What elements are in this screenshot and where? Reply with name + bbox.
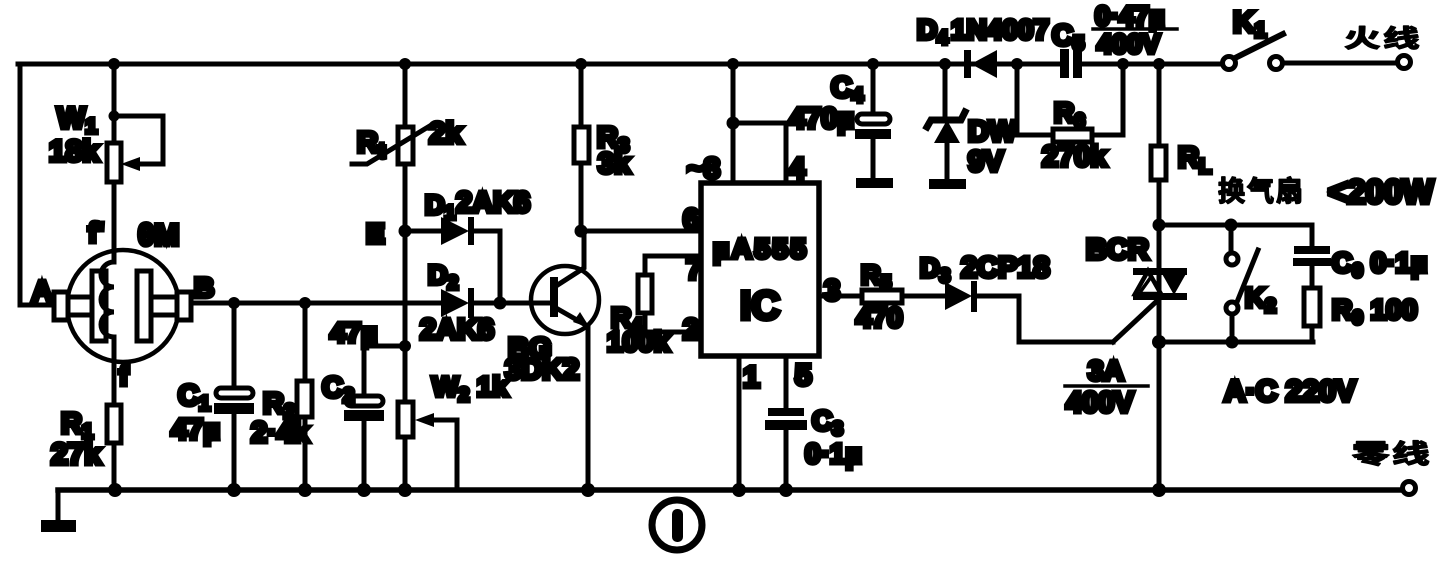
node R3 top bbox=[575, 58, 587, 70]
wire to pin 6 bbox=[581, 229, 701, 234]
node D4/R6 bbox=[1011, 58, 1023, 70]
wire bottom rail bbox=[58, 487, 1402, 493]
svg-text:470µ: 470µ bbox=[789, 103, 854, 135]
thermistor Rt 2k bbox=[352, 64, 463, 164]
wire W1 to sensor heater bbox=[112, 182, 117, 252]
svg-text:2k: 2k bbox=[429, 117, 463, 150]
electrode right plate bbox=[137, 271, 151, 341]
capacitor C2 47u bbox=[322, 317, 405, 490]
node pin1 bottom bbox=[732, 483, 746, 497]
svg-text:3A: 3A bbox=[1088, 355, 1124, 386]
resistor R2 2.4k bbox=[251, 303, 312, 490]
label huoxian bbox=[1345, 26, 1418, 49]
svg-text:C0 0·1µ: C0 0·1µ bbox=[1332, 247, 1427, 282]
potentiometer W2 1k bbox=[398, 371, 508, 490]
switch K1 bbox=[1223, 6, 1398, 70]
triac BCR bbox=[1065, 225, 1187, 490]
resistor RL bbox=[1151, 64, 1211, 225]
svg-text:400V: 400V bbox=[1066, 387, 1134, 419]
diode D3 2CP18 bbox=[920, 252, 1113, 342]
capacitor C1 47u bbox=[171, 303, 254, 490]
terminal live wire bbox=[1398, 56, 1411, 69]
sensor thetaM body bbox=[32, 217, 214, 391]
svg-text:f': f' bbox=[88, 217, 104, 248]
svg-text:W2 1k: W2 1k bbox=[432, 371, 508, 406]
svg-text:B: B bbox=[194, 272, 214, 303]
resistor R3 3k bbox=[574, 64, 631, 231]
wire pin 8 bbox=[731, 64, 736, 183]
node K2 bottom bbox=[1226, 336, 1239, 349]
svg-text:f: f bbox=[119, 360, 129, 391]
transistor BG 3DK2 bbox=[505, 231, 599, 490]
node R1 bottom bbox=[108, 483, 122, 497]
wire E down through crossing to C2/W2 junction bbox=[403, 231, 408, 402]
node C4 rail bbox=[867, 58, 879, 70]
fork wires A to left plate bbox=[68, 297, 92, 315]
wire R1 to bottom rail bbox=[112, 443, 117, 490]
svg-text:400V: 400V bbox=[1097, 29, 1160, 59]
svg-text:3DK2: 3DK2 bbox=[505, 354, 579, 386]
node W2 bottom bbox=[398, 483, 412, 497]
node RL bottom bbox=[1153, 219, 1166, 232]
wire sensor to R1 bbox=[112, 360, 117, 405]
svg-text:47µ: 47µ bbox=[171, 414, 220, 446]
svg-text:0·1µ: 0·1µ bbox=[805, 438, 862, 469]
svg-text:<200W: <200W bbox=[1328, 173, 1434, 210]
svg-text:470: 470 bbox=[856, 302, 903, 333]
svg-text:18k: 18k bbox=[49, 135, 99, 168]
svg-text:θM: θM bbox=[138, 219, 179, 252]
capacitor C0 0.1u bbox=[1293, 225, 1427, 288]
svg-text:5: 5 bbox=[795, 359, 812, 392]
resistor R4 100k bbox=[607, 275, 670, 357]
node R6 right rail bbox=[1117, 58, 1129, 70]
svg-text:A: A bbox=[32, 275, 52, 306]
node C1 top bbox=[228, 297, 240, 309]
node C2 bottom bbox=[357, 483, 371, 497]
node pin8 rail bbox=[727, 58, 739, 70]
node R2 top bbox=[299, 297, 311, 309]
svg-text:A·C 220V: A·C 220V bbox=[1224, 375, 1356, 408]
svg-text:IC: IC bbox=[740, 284, 780, 328]
wire R4 to pin 2 bbox=[645, 313, 701, 332]
wire pin 3 to R5 bbox=[819, 294, 862, 299]
node W1 top bbox=[108, 58, 120, 70]
ground bbox=[41, 520, 76, 532]
wire Rt to E bbox=[403, 164, 408, 231]
node DW rail bbox=[939, 58, 951, 70]
node emitter bottom bbox=[581, 483, 595, 497]
capacitor C5 0.47u 400V bbox=[1052, 1, 1177, 82]
node K2 top bbox=[1225, 219, 1238, 232]
svg-text:2: 2 bbox=[683, 314, 699, 346]
wire RL to K2/C0 branch bbox=[1159, 223, 1312, 228]
svg-text:1: 1 bbox=[743, 361, 760, 394]
node triac bottom bbox=[1152, 335, 1166, 349]
zener DW 9V bbox=[927, 64, 1017, 189]
resistor R1 27k bbox=[51, 405, 121, 471]
svg-text:3k: 3k bbox=[598, 148, 631, 180]
svg-text:0·47µ: 0·47µ bbox=[1095, 1, 1165, 31]
svg-text:2CP18: 2CP18 bbox=[961, 252, 1050, 284]
label lingxian bbox=[1353, 441, 1429, 466]
resistor R6 270k loop bbox=[1017, 64, 1123, 173]
node RL rail bbox=[1153, 58, 1165, 70]
svg-text:BCR: BCR bbox=[1086, 234, 1149, 266]
capacitor C4 470u bbox=[789, 64, 893, 188]
diode D1 2AK6 bbox=[411, 187, 530, 303]
wire B to D2 bbox=[191, 301, 441, 306]
node pin8/pin4 bbox=[727, 117, 740, 130]
IC uA555 bbox=[701, 183, 819, 356]
wire left edge from rail to sensor terminal A bbox=[20, 64, 54, 305]
wire pin 1 to rail bbox=[737, 356, 742, 490]
heater coil f'-f bbox=[101, 252, 114, 360]
diode D4 1N4007 bbox=[917, 14, 1049, 78]
figure marker 1 bbox=[652, 500, 702, 550]
svg-text:~8: ~8 bbox=[687, 153, 720, 185]
diode D2 2AK6 bbox=[420, 260, 494, 346]
svg-text:6: 6 bbox=[683, 204, 699, 236]
node collector / pin6 bbox=[575, 225, 588, 238]
node C3 bottom bbox=[779, 483, 793, 497]
terminal neutral bbox=[1403, 482, 1416, 495]
svg-text:4: 4 bbox=[789, 153, 805, 185]
electrode left plate bbox=[92, 271, 106, 341]
wire D2 to base bbox=[475, 301, 551, 306]
svg-text:27k: 27k bbox=[51, 438, 101, 471]
svg-text:R0 100: R0 100 bbox=[1332, 294, 1417, 329]
svg-text:2AK6: 2AK6 bbox=[420, 314, 494, 346]
wire rail end to ground bbox=[56, 490, 61, 521]
potentiometer W1 18k bbox=[49, 102, 163, 182]
svg-text:2·4k: 2·4k bbox=[251, 417, 310, 449]
wire pin 7 to R4 bbox=[645, 256, 701, 275]
svg-text:9V: 9V bbox=[968, 146, 1004, 178]
svg-text:2AK6: 2AK6 bbox=[456, 187, 530, 219]
node Rt top rail bbox=[399, 58, 411, 70]
svg-text:270k: 270k bbox=[1042, 141, 1107, 173]
wire pin 5 to C3 bbox=[784, 356, 789, 408]
label fan rating bbox=[1219, 177, 1301, 204]
wire top supply rail bbox=[18, 62, 1222, 67]
svg-text:DW: DW bbox=[968, 116, 1017, 148]
switch K2 bbox=[1226, 225, 1276, 342]
capacitor C3 0.1u bbox=[765, 405, 862, 490]
node E bbox=[399, 225, 412, 238]
node C2 tap bbox=[399, 340, 411, 352]
svg-text:µA555: µA555 bbox=[713, 233, 809, 264]
node D1/D2 join bbox=[494, 297, 507, 310]
svg-text:E: E bbox=[366, 218, 385, 249]
wire pin 4 loop bbox=[733, 123, 786, 183]
resistor R0 100 bbox=[1304, 288, 1417, 342]
wire triac to R0 bottom bbox=[1159, 340, 1313, 345]
terminal box A bbox=[54, 292, 68, 320]
fork wires right plate to B bbox=[151, 297, 177, 315]
node C1 bottom bbox=[227, 483, 241, 497]
wire rail to W1 bbox=[112, 64, 117, 143]
terminal box B bbox=[177, 292, 191, 320]
svg-text:1N4007: 1N4007 bbox=[951, 14, 1049, 45]
node R2 bottom bbox=[298, 483, 312, 497]
node triac rail bbox=[1152, 483, 1166, 497]
node W1 wiper tap bbox=[109, 111, 120, 122]
svg-text:7: 7 bbox=[686, 254, 702, 286]
svg-text:3: 3 bbox=[824, 275, 840, 307]
resistor R5 470 bbox=[856, 260, 946, 333]
svg-text:47µ: 47µ bbox=[330, 317, 377, 348]
